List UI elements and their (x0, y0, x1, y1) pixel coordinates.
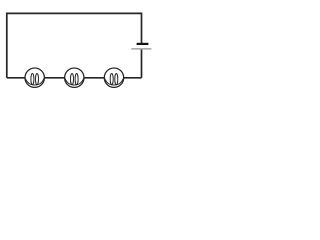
wire: bottom of loop (7, 77, 142, 79)
lamp L1 (25, 68, 44, 87)
lamp L2 (65, 68, 84, 87)
wire: right-lower segment below battery (141, 50, 143, 78)
battery B1: long thin plate (131, 48, 151, 50)
wire: left, top and upper-right segments of the loop (7, 13, 142, 77)
battery B1: short thick plate (137, 43, 149, 45)
lamp L3 (104, 68, 123, 87)
